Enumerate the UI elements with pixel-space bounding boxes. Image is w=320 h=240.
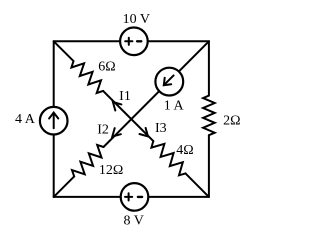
voltage source V1 10V circle [120,28,148,56]
resistor R 4ohm [151,141,185,175]
wire top [54,40,209,42]
voltage source V2 8V circle [121,183,149,211]
wire diag2 bottom lead [54,176,74,197]
current arrow I2 [112,128,121,137]
V1 plus terminal [125,38,132,45]
svg-text:I2: I2 [97,122,109,137]
svg-text:I1: I1 [119,89,131,104]
wire diag1 top lead [54,41,74,61]
svg-text:4Ω: 4Ω [176,143,193,158]
current arrow I1 [113,102,122,111]
svg-text:I3: I3 [155,121,167,136]
current source I 1A circle [155,68,183,96]
svg-text:6Ω: 6Ω [98,60,115,75]
svg-text:1 A: 1 A [164,98,185,113]
current source I 4A circle [40,107,68,135]
svg-text:8 V: 8 V [124,213,144,228]
wire right upper [208,41,210,95]
wire right lower [208,135,210,197]
svg-text:12Ω: 12Ω [99,163,123,178]
wire left [53,41,55,197]
1A arrow [164,75,174,85]
wire diag2 upper [104,41,209,147]
wire diag1 bottom lead [186,173,209,197]
svg-text:10 V: 10 V [123,12,150,27]
V2 minus terminal [138,196,142,198]
resistor R 12ohm [72,145,104,177]
svg-text:2Ω: 2Ω [223,114,240,129]
resistor R 6ohm [71,61,103,93]
wire diag1 middle [103,91,153,141]
wire bottom [54,196,209,198]
svg-text:4 A: 4 A [15,112,36,127]
resistor R 2ohm [203,96,215,136]
current arrow I3 [140,128,149,136]
V2 plus terminal [125,193,132,200]
V1 minus terminal [137,40,141,42]
4A arrow [49,113,58,129]
